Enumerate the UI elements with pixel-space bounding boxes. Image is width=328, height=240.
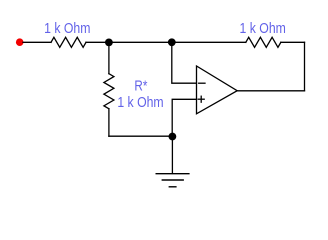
node B junction dot	[168, 38, 176, 46]
op-amp U1 triangle	[197, 66, 238, 114]
wire inverting input from node B	[172, 42, 197, 83]
svg-text:1 k Ohm: 1 k Ohm	[44, 21, 90, 37]
wire from R2 to top-right corner	[281, 41, 305, 43]
wire from input terminal to R1	[23, 41, 51, 43]
wire node A down to R*	[108, 42, 110, 73]
svg-text:1 k Ohm: 1 k Ohm	[240, 21, 286, 37]
node C junction dot	[169, 133, 177, 141]
wire right edge down	[304, 42, 306, 91]
wire output to op-amp apex	[237, 90, 305, 92]
wire non-inverting input from node C	[172, 99, 196, 136]
wire bottom rail to node C	[109, 135, 172, 137]
node Vin terminal (red)	[16, 38, 24, 46]
resistor R2 1 k Ohm (feedback, horizontal)	[246, 37, 281, 47]
op-amp plus pin mark	[198, 98, 204, 100]
op-amp minus pin mark	[199, 82, 205, 84]
node A junction dot	[105, 39, 113, 47]
resistor R* 1 k Ohm (vertical)	[104, 74, 114, 109]
wire from R* down to bottom rail	[108, 109, 110, 136]
wire node C down to ground	[171, 136, 173, 173]
ground symbol	[156, 173, 189, 175]
svg-text:1 k Ohm: 1 k Ohm	[117, 95, 163, 111]
wire top rail from R1 to feedback resistor	[86, 41, 246, 43]
svg-text:R*: R*	[134, 78, 147, 94]
resistor R1 1 k Ohm (horizontal, input)	[51, 37, 86, 47]
